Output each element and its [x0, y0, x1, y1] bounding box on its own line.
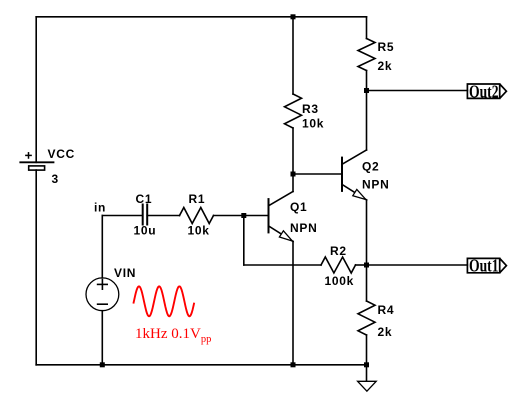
wire in node to C1 — [102, 215, 142, 217]
node junction Q2 base tee — [291, 172, 296, 177]
wire feedback to R2 — [244, 264, 321, 266]
svg-text:R3: R3 — [302, 102, 319, 116]
wire R5 top from rail — [366, 17, 368, 39]
wire ground stub — [366, 365, 368, 382]
wire R3 top from rail — [292, 17, 294, 94]
wire left rail upper — [35, 17, 37, 163]
wire Q2 emitter down to Out1 node — [366, 200, 368, 265]
svg-text:2k: 2k — [378, 325, 393, 339]
node junction top R3 — [291, 14, 296, 19]
svg-text:R1: R1 — [189, 192, 206, 206]
resistor R2 — [321, 257, 356, 273]
capacitor C1 — [143, 205, 148, 225]
wire Out1 node to flag — [367, 264, 468, 266]
wire R3 bottom to collector node — [292, 128, 294, 174]
wire collector node to Q2 base — [293, 173, 342, 175]
svg-text:10u: 10u — [134, 224, 157, 238]
wire left rail lower — [35, 170, 37, 365]
svg-text:in: in — [94, 201, 106, 215]
svg-text:R2: R2 — [330, 244, 347, 258]
wire Q1 emitter down to bottom rail — [292, 241, 294, 364]
wire C1 to R1 — [147, 215, 179, 217]
svg-text:NPN: NPN — [290, 221, 317, 235]
svg-text:3: 3 — [52, 172, 59, 186]
svg-text:2k: 2k — [378, 59, 393, 73]
sine wave symbol of VIN — [133, 286, 194, 316]
node junction Q1 base tee — [241, 213, 246, 218]
wire Out1 node down to R4 — [366, 265, 368, 301]
wire Q2 collector up to Out2 node — [366, 91, 368, 151]
svg-text:100k: 100k — [325, 274, 355, 288]
wire top rail — [36, 16, 366, 18]
svg-text:C1: C1 — [136, 192, 153, 206]
wire R1 to Q1 base — [214, 215, 268, 217]
resistor R5 — [358, 39, 375, 71]
resistor R4 — [358, 301, 375, 335]
port flag Out1 — [467, 258, 506, 272]
wire R5 bottom to Out2 node — [366, 71, 368, 91]
svg-text:10k: 10k — [188, 224, 210, 238]
node junction Out2 — [364, 88, 369, 93]
svg-text:NPN: NPN — [362, 178, 389, 192]
svg-text:Q2: Q2 — [362, 160, 379, 174]
svg-text:10k: 10k — [302, 117, 324, 131]
svg-text:Out2: Out2 — [469, 81, 499, 101]
svg-text:Out1: Out1 — [469, 256, 499, 276]
node junction Out1 — [364, 263, 369, 268]
wire in node down to VIN — [101, 216, 103, 278]
wire VIN to bottom rail — [101, 311, 103, 365]
wire R4 to ground node — [366, 335, 368, 365]
node junction Q1 emitter bottom — [291, 362, 296, 367]
svg-text:Q1: Q1 — [290, 200, 307, 214]
node junction VIN bottom — [100, 362, 105, 367]
port flag Out2 — [467, 84, 506, 98]
transistor Q2 — [342, 150, 367, 200]
voltage source VCC — [20, 153, 53, 170]
svg-text:R5: R5 — [378, 40, 395, 54]
wire bottom rail — [36, 364, 366, 366]
resistor R1 — [180, 208, 214, 224]
svg-text:VCC: VCC — [48, 147, 75, 161]
node junction ground — [364, 362, 369, 367]
resistor R3 — [285, 94, 302, 128]
wire R2 to Out1 node — [356, 264, 367, 266]
ground — [358, 381, 377, 391]
wire Q1 collector up — [292, 174, 294, 192]
wire feedback down from base node — [243, 216, 245, 266]
wire Out2 node to flag — [367, 90, 468, 92]
svg-text:VIN: VIN — [114, 266, 136, 280]
transistor Q1 — [269, 192, 294, 242]
svg-text:R4: R4 — [378, 303, 395, 317]
voltage source VIN — [86, 278, 119, 311]
